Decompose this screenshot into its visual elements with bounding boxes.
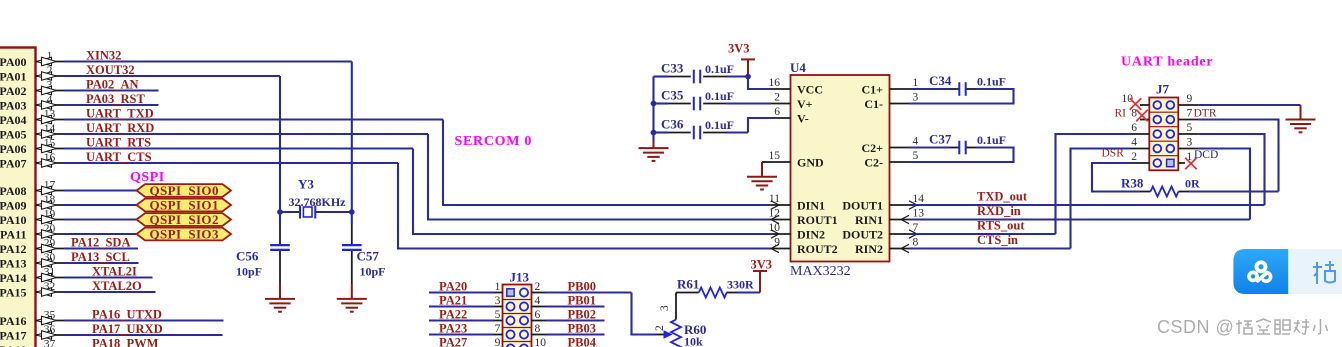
svg-text:3: 3 — [659, 305, 671, 311]
wire UART_CTS — [64, 150, 398, 164]
Baidu cloud icon — [1249, 262, 1271, 281]
svg-text:UART_RTS: UART_RTS — [86, 136, 151, 150]
pin arrow PA08 — [37, 186, 57, 195]
svg-text:XOUT32: XOUT32 — [86, 63, 135, 77]
svg-text:PA17_URXD: PA17_URXD — [92, 322, 163, 336]
ground stem J7 — [1300, 105, 1302, 120]
pin arrow PA03 — [37, 101, 57, 110]
U4 pin 15 GND — [769, 150, 825, 169]
MCU pin 35 PA16 — [0, 310, 64, 328]
svg-text:DOUT2: DOUT2 — [842, 227, 883, 241]
svg-text:R61: R61 — [677, 277, 699, 292]
svg-text:J13: J13 — [510, 270, 530, 285]
svg-text:ROUT2: ROUT2 — [797, 242, 838, 256]
U4 pin 4 C2+ — [861, 136, 918, 155]
svg-text:XIN32: XIN32 — [86, 49, 121, 63]
no-connect X J7 pin8 — [1136, 110, 1148, 122]
svg-text:C1+: C1+ — [861, 82, 883, 96]
J13 row dividers — [503, 300, 532, 342]
no-connect X J7 pin1 — [1185, 158, 1197, 170]
drag text (CJK glyph approximation) — [1313, 261, 1335, 284]
wire PA13_SCL — [64, 250, 139, 264]
C34 plates — [959, 82, 965, 96]
J13 pin 6 PB02 — [532, 307, 605, 321]
U4 pin 3 C1- — [864, 92, 918, 111]
pin arrow PA15 — [37, 288, 57, 297]
svg-text:XTAL2O: XTAL2O — [92, 279, 142, 293]
pin arrow PA17 — [37, 331, 57, 340]
MCU pin 14 PA05 — [0, 123, 64, 141]
wire XIN32 — [64, 49, 352, 63]
wire PA03_RST — [64, 92, 159, 106]
svg-text:4: 4 — [535, 295, 541, 307]
svg-text:R38: R38 — [1121, 176, 1144, 191]
wire to QSPI port y=219.5 — [64, 218, 137, 220]
crystal Y3 — [289, 177, 347, 219]
pin arrow PA11 — [37, 230, 57, 239]
svg-text:V+: V+ — [797, 97, 813, 111]
svg-text:0.1uF: 0.1uF — [705, 62, 734, 76]
svg-text:PA11: PA11 — [0, 227, 26, 241]
port QSPI_SIO3 — [137, 226, 232, 241]
J7 pin 1 stub — [1178, 151, 1192, 163]
wire GND pin15 — [762, 162, 771, 177]
wire RTS_out to J7 pin6 — [1056, 134, 1130, 234]
svg-text:4: 4 — [1131, 137, 1137, 149]
junction crystal left — [277, 209, 283, 215]
wire C36 to V- pin6 — [748, 118, 771, 133]
J13 pin 4 PB01 — [532, 293, 605, 307]
svg-text:RIN2: RIN2 — [855, 242, 883, 256]
MCU pin 37 PA18 — [0, 339, 56, 347]
pin arrow PA16 — [37, 316, 57, 325]
MCU pin 30 PA13 — [0, 252, 64, 270]
C56 plates — [270, 245, 290, 250]
svg-text:C36: C36 — [661, 117, 684, 132]
J7 pin 8 stub — [1131, 108, 1149, 120]
labels R38 0R — [1121, 176, 1200, 191]
wire XOUT32 vertical — [279, 76, 281, 212]
svg-text:2: 2 — [535, 281, 541, 293]
svg-text:PA07: PA07 — [0, 156, 27, 170]
labels R60 10k — [684, 322, 706, 347]
wire PA17_URXD — [64, 322, 223, 336]
svg-text:6: 6 — [1131, 122, 1137, 134]
capacitor C57 — [352, 212, 386, 285]
svg-text:10pF: 10pF — [236, 264, 262, 278]
MCU pin 29 PA12 — [0, 238, 64, 256]
MCU pin 31 PA14 — [0, 267, 64, 285]
svg-text:PA04: PA04 — [0, 113, 27, 127]
svg-text:CTS_in: CTS_in — [977, 233, 1018, 247]
resistor R61 — [699, 288, 727, 298]
MCU pin 18 PA09 — [0, 194, 64, 212]
U4 pin 5 C2- — [864, 150, 918, 169]
port QSPI_SIO2 — [137, 212, 232, 227]
C57 plates — [342, 245, 362, 250]
svg-text:PA00: PA00 — [0, 55, 27, 69]
J13 pin 7 PA23 — [429, 321, 503, 335]
pin arrow PA07 — [37, 159, 57, 168]
svg-text:PA16_UTXD: PA16_UTXD — [92, 308, 162, 322]
op-amp U4 MAX3232 box — [791, 75, 890, 262]
svg-text:PA02: PA02 — [0, 84, 27, 98]
MCU pin 3 PA02 — [0, 80, 64, 98]
wire RTS_out — [909, 219, 1056, 235]
J7 pin circles — [1153, 101, 1174, 167]
svg-text:9: 9 — [495, 337, 501, 347]
svg-text:3V3: 3V3 — [728, 42, 750, 56]
svg-text:2: 2 — [774, 92, 780, 104]
svg-text:RI: RI — [1115, 107, 1127, 119]
svg-text:C56: C56 — [236, 248, 259, 263]
svg-text:PA18_PWM: PA18_PWM — [92, 337, 159, 347]
svg-text:C35: C35 — [661, 88, 684, 103]
U4 pin 10 DIN2 — [769, 222, 826, 241]
svg-text:10pF: 10pF — [360, 264, 386, 278]
wire DTR to R38 — [1198, 120, 1278, 192]
svg-text:5: 5 — [913, 150, 919, 162]
svg-text:U4: U4 — [790, 60, 806, 75]
svg-text:DIN2: DIN2 — [797, 227, 825, 241]
U4 pin 12 ROUT1 — [769, 208, 838, 227]
pin arrow PA02 — [37, 86, 57, 95]
pin arrow PA00 — [37, 57, 57, 66]
svg-text:CSDN @: CSDN @ — [1157, 317, 1234, 337]
junction rail/C36 — [651, 130, 657, 136]
svg-text:10k: 10k — [684, 335, 703, 347]
pin arrow PA05 — [37, 130, 57, 139]
svg-text:C2-: C2- — [864, 155, 883, 169]
wire J7 pin9 to ground — [1198, 104, 1300, 106]
wire CTS_in — [909, 233, 1071, 249]
svg-text:PA10: PA10 — [0, 213, 27, 227]
svg-text:4: 4 — [913, 136, 919, 148]
svg-text:PA27: PA27 — [439, 335, 467, 347]
svg-text:PA23: PA23 — [439, 321, 467, 335]
resistor R38 leads — [1140, 191, 1279, 193]
svg-text:DTR: DTR — [1194, 108, 1217, 120]
U4 pin 14 DOUT1 — [842, 193, 924, 212]
svg-text:6: 6 — [774, 106, 780, 118]
C35 plates — [694, 97, 700, 111]
J13 pin 8 PB03 — [532, 321, 605, 335]
junction rail/C35 — [651, 101, 657, 107]
wire to QSPI port y=205 — [64, 204, 137, 206]
pin arrow PA13 — [37, 259, 57, 268]
svg-text:DSR: DSR — [1102, 148, 1125, 160]
J7 pin 2 stub — [1130, 151, 1150, 163]
svg-text:PA05: PA05 — [0, 127, 27, 141]
svg-text:J7: J7 — [1156, 82, 1170, 97]
power 3V3 (R61) — [753, 271, 767, 293]
watermark CJK glyphs — [1236, 320, 1252, 334]
U4 pin 13 RIN1 — [855, 208, 924, 227]
svg-text:PA15: PA15 — [0, 285, 27, 299]
svg-text:PB02: PB02 — [568, 307, 596, 321]
J7 row dividers — [1149, 112, 1178, 156]
J7 pin 7 stub — [1178, 108, 1198, 120]
pin arrow PA14 — [37, 273, 57, 282]
capacitor C37 loop — [909, 148, 1014, 163]
svg-text:QSPI_SIO1: QSPI_SIO1 — [150, 197, 219, 212]
port QSPI_SIO0 — [137, 183, 232, 198]
svg-text:8: 8 — [535, 323, 541, 335]
MCU pin 16 PA07 — [0, 152, 64, 170]
svg-text:ROUT1: ROUT1 — [797, 213, 838, 227]
svg-text:PA14: PA14 — [0, 271, 27, 285]
ground stem C57 — [351, 285, 353, 299]
wire RXD_in — [909, 204, 1250, 220]
J7 pin 10 stub — [1122, 93, 1150, 105]
svg-text:VCC: VCC — [797, 82, 823, 96]
wire PA12_SDA — [64, 236, 138, 250]
svg-text:16: 16 — [769, 77, 781, 89]
J7 pin 9 stub — [1178, 93, 1198, 105]
wire PA02_AN — [64, 78, 159, 92]
MCU pin 20 PA11 — [0, 223, 64, 241]
connector J7 box — [1149, 98, 1178, 171]
no-connect X J7 pin10 — [1130, 98, 1142, 110]
J13 pin 5 PA22 — [429, 307, 503, 321]
svg-text:UART_RXD: UART_RXD — [86, 121, 154, 135]
wire DSR to R38 — [1092, 163, 1140, 192]
wire XTAL2O — [64, 279, 156, 293]
svg-text:PA17: PA17 — [0, 328, 27, 342]
wire C35 row — [654, 102, 772, 104]
svg-text:C37: C37 — [929, 132, 952, 147]
svg-text:PA06: PA06 — [0, 142, 27, 156]
MCU U? (partially cut at left edge) — [0, 48, 36, 347]
svg-text:Y3: Y3 — [298, 177, 314, 192]
J13 pin 3 PA21 — [429, 293, 503, 307]
wire TXD_out to J7 pin5 — [1198, 134, 1264, 205]
labels C37 — [929, 132, 1006, 148]
svg-text:PA16: PA16 — [0, 314, 27, 328]
svg-text:PA20: PA20 — [439, 279, 467, 293]
svg-text:PB01: PB01 — [568, 293, 596, 307]
wire TXD_out — [909, 190, 1265, 206]
svg-text:PA22: PA22 — [439, 307, 467, 321]
svg-text:QSPI_SIO0: QSPI_SIO0 — [150, 183, 219, 198]
U4 pin 1 C1+ — [861, 77, 918, 96]
svg-text:5: 5 — [1187, 122, 1193, 134]
wire PA16_UTXD — [64, 308, 224, 322]
wire UART_RXD to ROUT1 — [428, 134, 771, 220]
J7 pin 3 stub — [1178, 137, 1198, 149]
labels C34 — [929, 73, 1006, 89]
svg-text:PA18: PA18 — [0, 343, 27, 347]
svg-text:TXD_out: TXD_out — [977, 190, 1028, 204]
J7 pin 6 stub — [1130, 122, 1150, 134]
U4 pin 6 V- — [771, 106, 809, 125]
J13 pin 10 PB04 — [532, 335, 605, 347]
svg-text:PA13_SCL: PA13_SCL — [71, 250, 130, 264]
wire XIN32 vertical — [351, 62, 353, 213]
svg-text:3V3: 3V3 — [751, 258, 773, 272]
R60 wiper arrow — [655, 331, 672, 338]
svg-text:37: 37 — [44, 339, 56, 347]
MCU pin 19 PA10 — [0, 209, 64, 227]
svg-text:PA21: PA21 — [439, 293, 467, 307]
pin arrow PA04 — [37, 115, 57, 124]
wire cap-bank rail — [652, 77, 654, 142]
svg-text:0R: 0R — [1185, 177, 1200, 191]
ground C57 — [337, 299, 367, 312]
capacitor C56 — [236, 212, 280, 285]
svg-text:5: 5 — [495, 309, 501, 321]
svg-text:PA12: PA12 — [0, 242, 27, 256]
wire PB00 to R60 wiper — [632, 293, 656, 335]
svg-text:C33: C33 — [661, 61, 684, 76]
J13 pin 2 PB00 — [532, 279, 632, 293]
MCU pin 36 PA17 — [0, 324, 64, 342]
MCU pin 13 PA04 — [0, 109, 64, 127]
port QSPI_SIO1 — [137, 197, 232, 212]
svg-text:SERCOM 0: SERCOM 0 — [455, 134, 533, 149]
svg-text:PA08: PA08 — [0, 184, 27, 198]
J7 pin1 square — [1167, 159, 1174, 166]
wire UART_TXD — [64, 107, 443, 121]
svg-text:0.1uF: 0.1uF — [977, 75, 1006, 89]
svg-text:C34: C34 — [929, 73, 952, 88]
MCU pin 32 PA15 — [0, 281, 64, 299]
svg-text:9: 9 — [1187, 93, 1193, 105]
svg-text:QSPI_SIO3: QSPI_SIO3 — [150, 226, 219, 241]
resistor R61 leads — [676, 292, 760, 294]
wire to QSPI port y=190.5 — [64, 189, 137, 191]
svg-text:RXD_in: RXD_in — [977, 204, 1021, 218]
svg-text:MAX3232: MAX3232 — [790, 264, 851, 279]
svg-text:QSPI_SIO2: QSPI_SIO2 — [150, 212, 219, 227]
J13 pin 1 PA20 — [429, 279, 503, 293]
svg-text:330R: 330R — [727, 278, 754, 292]
pin arrow PA10 — [37, 215, 57, 224]
wire XOUT32 — [64, 63, 280, 77]
svg-text:PA09: PA09 — [0, 198, 27, 212]
wire crystal row — [280, 211, 352, 213]
svg-text:UART_CTS: UART_CTS — [86, 150, 152, 164]
J13 pin 9 PA27 — [429, 335, 503, 347]
wire UART_TXD to DIN1 — [443, 120, 771, 206]
junction crystal right — [349, 209, 355, 215]
svg-text:UART_TXD: UART_TXD — [86, 107, 154, 121]
svg-text:PA03_RST: PA03_RST — [86, 92, 145, 106]
svg-text:C2+: C2+ — [861, 141, 883, 155]
MCU pin 4 PA03 — [0, 94, 64, 112]
ground C56 — [265, 299, 295, 312]
svg-text:2: 2 — [1131, 151, 1137, 163]
pin arrow PA09 — [37, 201, 57, 210]
MCU pin 15 PA06 — [0, 138, 64, 156]
wire UART_CTS to ROUT2 — [398, 163, 771, 249]
U4 pin 7 DOUT2 — [842, 222, 918, 241]
svg-text:PA03: PA03 — [0, 98, 27, 112]
ground J7 pin9 — [1286, 120, 1316, 133]
wire RXD_in to J7 pin3 — [1198, 149, 1250, 220]
capacitor C34 loop — [909, 89, 1014, 104]
svg-text:7: 7 — [1187, 108, 1193, 120]
svg-text:3: 3 — [1187, 137, 1193, 149]
wire UART_RTS to DIN2 — [413, 149, 771, 235]
ground U4 pin15 — [747, 177, 777, 190]
U4 pin 16 VCC — [769, 77, 824, 96]
ground stem cap bank — [653, 141, 655, 148]
svg-text:PA12_SDA: PA12_SDA — [71, 236, 131, 250]
svg-text:PA01: PA01 — [0, 69, 27, 83]
svg-text:7: 7 — [495, 323, 501, 335]
svg-text:PB04: PB04 — [568, 335, 597, 347]
svg-text:UART header: UART header — [1121, 55, 1213, 70]
potentiometer R60 — [671, 320, 681, 347]
svg-text:PB00: PB00 — [568, 279, 596, 293]
U4 pin 2 V+ — [771, 92, 813, 111]
svg-text:0.1uF: 0.1uF — [705, 89, 734, 103]
svg-text:XTAL2I: XTAL2I — [92, 265, 137, 279]
svg-text:DCD: DCD — [1194, 149, 1218, 161]
svg-text:0.1uF: 0.1uF — [977, 133, 1006, 147]
wire to QSPI port y=234 — [64, 233, 137, 235]
wire UART_RXD — [64, 121, 428, 135]
svg-text:10: 10 — [535, 337, 547, 347]
wire UART_RTS — [64, 136, 413, 150]
J13 pin1 square — [507, 289, 514, 296]
R60 pin3 lead — [675, 293, 677, 320]
labels R61 330R — [677, 277, 754, 292]
svg-text:0.1uF: 0.1uF — [705, 118, 734, 132]
MCU pin 2 PA01 — [0, 65, 64, 83]
svg-text:13: 13 — [913, 208, 925, 220]
J13 pin circles — [506, 288, 528, 347]
ground cap bank — [639, 148, 669, 161]
svg-text:PB03: PB03 — [568, 321, 596, 335]
U4 pin 9 ROUT2 — [771, 237, 838, 256]
svg-text:RTS_out: RTS_out — [977, 219, 1025, 233]
wire C36 row — [654, 131, 749, 133]
svg-text:15: 15 — [769, 150, 781, 162]
svg-text:8: 8 — [1131, 108, 1137, 120]
C36 plates — [694, 126, 700, 140]
svg-text:DOUT1: DOUT1 — [842, 198, 883, 212]
J7 pin 5 stub — [1178, 122, 1198, 134]
svg-text:C1-: C1- — [864, 97, 883, 111]
wire C33 row — [654, 75, 749, 77]
power 3V3 (cap bank) — [741, 59, 755, 76]
J7 pin 4 stub — [1130, 137, 1150, 149]
pin arrow PA12 — [37, 244, 57, 253]
wire 3V3 to VCC pin16 — [748, 77, 771, 90]
svg-text:1: 1 — [495, 281, 501, 293]
wire XTAL2I — [64, 265, 153, 279]
MCU pin 1 PA00 — [0, 51, 64, 69]
svg-text:8: 8 — [913, 237, 919, 249]
junction 3V3/C33 — [745, 74, 751, 80]
U4 pin 11 DIN1 — [769, 193, 825, 212]
MCU pin 17 PA08 — [0, 180, 64, 198]
C37 plates — [959, 141, 965, 155]
svg-text:PA02_AN: PA02_AN — [86, 78, 139, 92]
svg-text:V-: V- — [797, 111, 809, 125]
svg-text:6: 6 — [535, 309, 541, 321]
pin arrow PA01 — [37, 72, 57, 81]
svg-text:3: 3 — [913, 92, 919, 104]
ground stem C56 — [279, 285, 281, 299]
svg-text:DIN1: DIN1 — [797, 198, 825, 212]
svg-text:32.768KHz: 32.768KHz — [289, 195, 347, 209]
C33 plates — [694, 70, 700, 84]
svg-text:PA13: PA13 — [0, 256, 27, 270]
connector J13 box — [503, 285, 532, 347]
